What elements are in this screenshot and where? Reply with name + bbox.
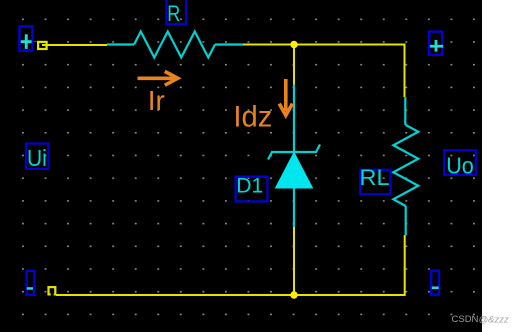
svg-text:Idz: Idz [233,101,272,134]
svg-text:Ir: Ir [148,85,165,116]
svg-text:D1: D1 [236,174,263,198]
svg-text:RL: RL [360,165,390,190]
svg-text:Uo: Uo [446,153,474,179]
svg-text:R: R [167,1,180,26]
svg-text:@&zzz: @&zzz [479,315,509,326]
svg-text:Ui: Ui [27,145,47,171]
svg-text:CSDN: CSDN [452,314,479,325]
